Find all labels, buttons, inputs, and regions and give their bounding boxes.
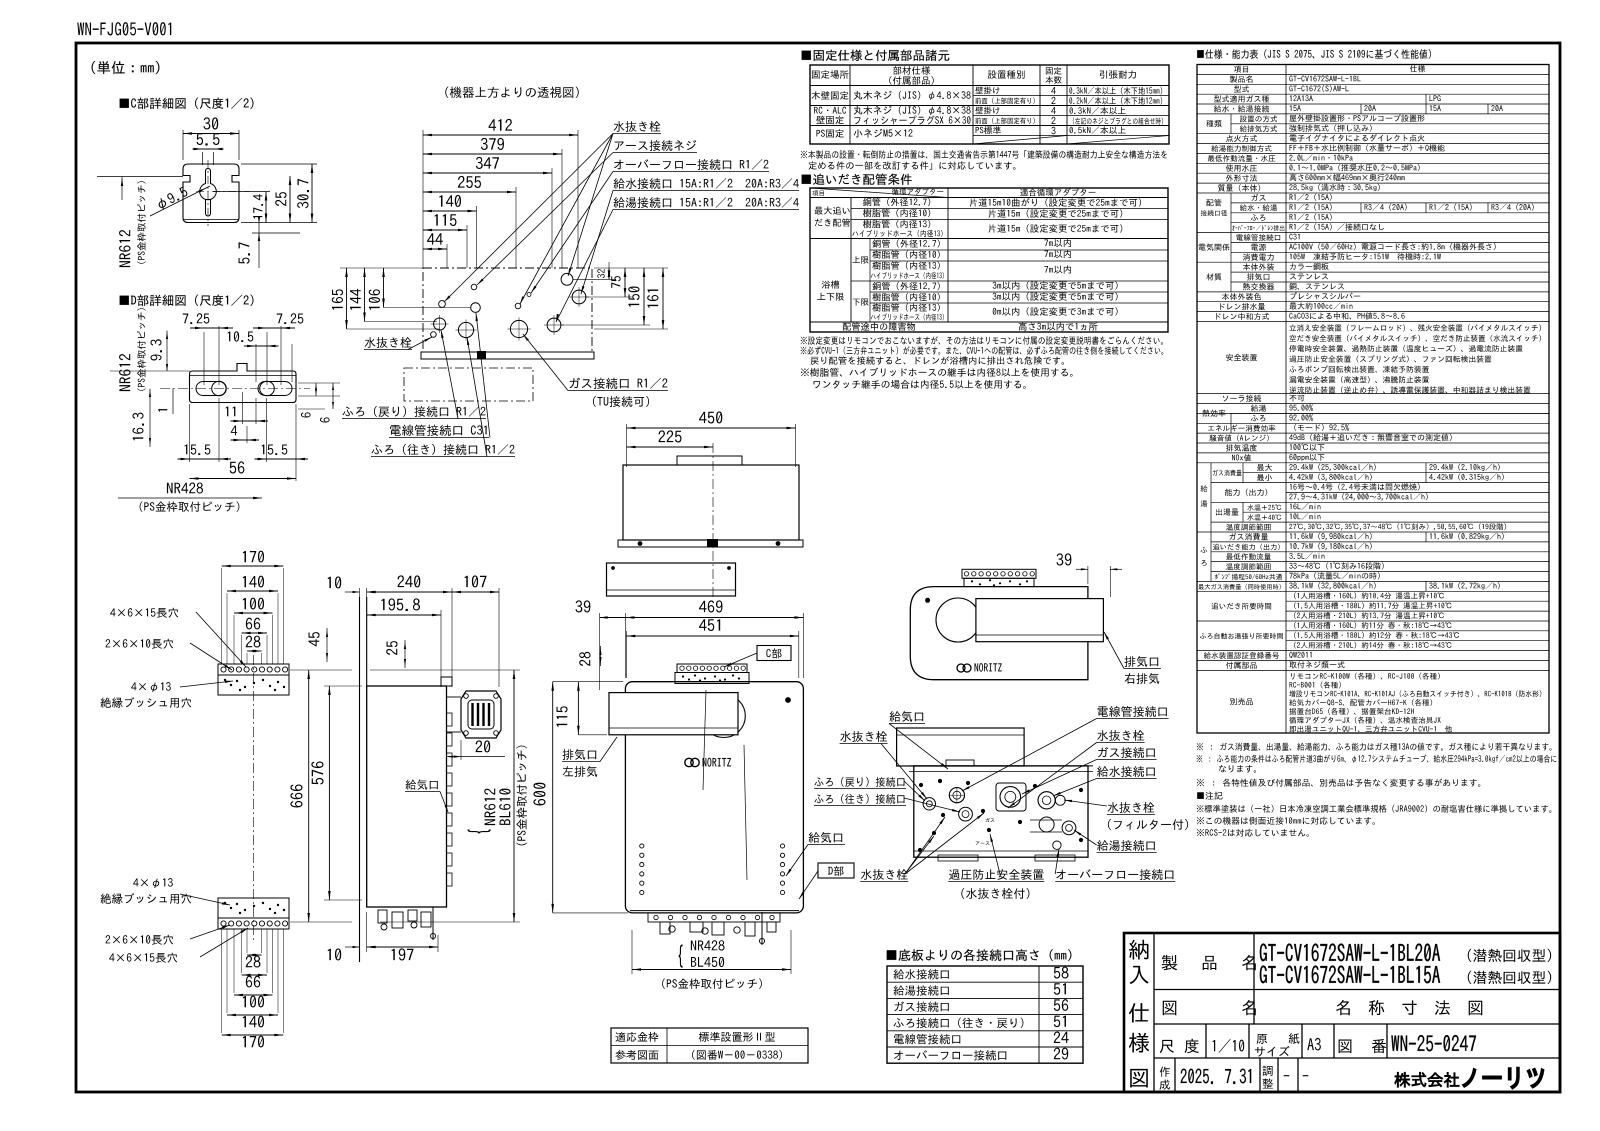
D-part detail heading: [120, 295, 254, 306]
side pitch labels: [370, 670, 527, 922]
spec table title: [1197, 49, 1431, 59]
bracket top labels: [100, 608, 246, 708]
front bottom bracket and fittings: [630, 911, 799, 945]
front view body: [609, 682, 803, 913]
perspective callouts right: [444, 121, 799, 322]
fixing notes: [801, 150, 1167, 158]
spec notes: [1197, 743, 1552, 751]
side exhaust flange: [447, 691, 502, 738]
top view body: [607, 456, 804, 596]
frame reference table: [611, 1028, 808, 1063]
doc number header: [77, 22, 171, 35]
side view body: [360, 597, 453, 962]
air intake label side: [405, 779, 448, 812]
perspective left dims: [332, 268, 470, 329]
perspective right dims: [561, 262, 668, 329]
front view dims: [533, 600, 803, 913]
bracket top dims: [222, 551, 284, 664]
spec table texts: [1199, 65, 1534, 320]
safety devices cell: [1226, 324, 1541, 393]
bracket bottom labels: [100, 878, 248, 963]
vent dots front: [640, 844, 785, 895]
top view dims: [627, 411, 796, 600]
unit note: [92, 61, 160, 74]
perspective box: [404, 268, 594, 401]
reheat piping table: [810, 188, 1168, 332]
title block vertical label: [1129, 940, 1149, 1088]
D-part label: [799, 863, 854, 899]
C-part detail heading: [120, 98, 254, 109]
D-part dims: [110, 308, 340, 512]
perspective holes: [431, 273, 589, 340]
fixing spec table title: [802, 50, 950, 61]
dim 20: [447, 740, 506, 760]
exhaust labels left: [562, 737, 617, 777]
bottom view duct part: [897, 728, 1025, 766]
bottom view body: [909, 766, 1093, 861]
bracket bottom dims: [222, 929, 284, 1048]
air intake label front: [786, 832, 845, 876]
bath time rows: [1200, 592, 1542, 732]
perspective callouts lower: [342, 313, 668, 457]
C-part dims: [97, 117, 317, 268]
side view dims top: [309, 575, 499, 687]
front top bracket: [675, 664, 749, 684]
bottom view callouts: [814, 706, 1188, 899]
reheat piping table title: [802, 174, 912, 185]
C-part bracket outline: [183, 160, 250, 226]
Noritz company logo: [1395, 1068, 1544, 1089]
title block texts: [1159, 944, 1551, 1090]
dims 666 576: [290, 670, 362, 922]
connection heights table: [887, 966, 1083, 1063]
right side view body: [910, 587, 1103, 680]
right exhaust labels: [1104, 632, 1161, 684]
spec table grid: [1197, 65, 1549, 734]
reheat notes: [801, 336, 1163, 345]
side bottom dims: [328, 912, 438, 961]
dim 39 right view: [1056, 553, 1122, 597]
C-part label: [724, 646, 791, 668]
perspective view title: [445, 87, 579, 98]
hot water capacity rows: [1198, 463, 1506, 589]
D-part bracket outline: [160, 364, 310, 403]
right side bracket: [962, 569, 1036, 586]
title block frame: [1124, 933, 1560, 1092]
bottom view fittings: [918, 779, 1083, 852]
spec table lower rows: [1202, 395, 1451, 462]
perspective dim stack: [423, 119, 578, 268]
wall bracket bottom: [218, 898, 289, 929]
noritz logo front: [685, 758, 731, 767]
noritz logo right view: [957, 663, 1002, 672]
fixing spec table: [810, 65, 1169, 144]
wall bracket top: [218, 655, 289, 940]
connection heights table title: [887, 949, 1072, 961]
NR428 pitch dim: [632, 930, 791, 989]
side bottom fittings: [378, 907, 436, 940]
